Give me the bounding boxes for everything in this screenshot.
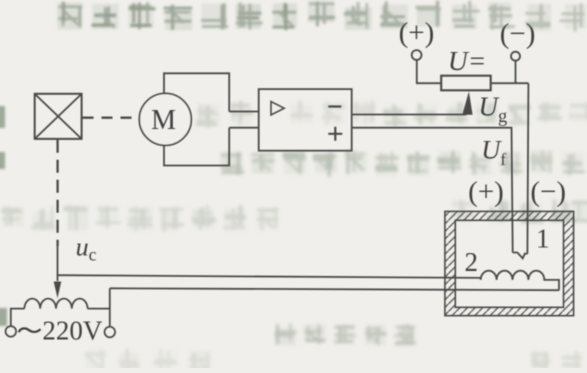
svg-text:(+): (+) <box>399 17 435 49</box>
svg-text:U=: U= <box>448 45 486 76</box>
svg-text:(−): (−) <box>500 18 536 50</box>
svg-text:M: M <box>151 105 176 136</box>
svg-text:(−): (−) <box>530 176 566 208</box>
svg-text:220V: 220V <box>42 316 103 346</box>
svg-text:2: 2 <box>465 247 479 277</box>
svg-text:1: 1 <box>536 224 550 254</box>
svg-text:(+): (+) <box>468 176 504 208</box>
